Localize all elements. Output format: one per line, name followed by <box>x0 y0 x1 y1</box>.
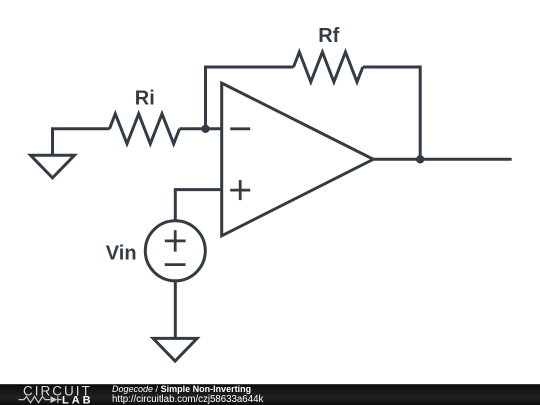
svg-text:Rf: Rf <box>318 25 339 47</box>
svg-text:http://circuitlab.com/czj58633: http://circuitlab.com/czj58633a644k <box>112 394 263 405</box>
schematic style <box>31 52 512 361</box>
svg-text:Dogecode / Simple Non-Invertin: Dogecode / Simple Non-Inverting <box>112 384 251 394</box>
node: output junction <box>416 155 424 163</box>
node: inverting input junction <box>201 125 209 133</box>
wire: Ri to inverting input <box>180 127 222 130</box>
op-amp U1 <box>222 83 374 236</box>
wire: Vin to bottom ground <box>174 281 177 339</box>
CircuitLab logo <box>19 383 94 405</box>
ground (bottom) <box>153 338 197 361</box>
wire: Rf to output vertical <box>363 67 420 159</box>
op-amp non-inverting input symbol (+) <box>230 180 250 200</box>
resistor Rf <box>294 52 363 82</box>
wire: feedback vertical (node to top) <box>206 67 294 129</box>
svg-text:LAB: LAB <box>62 395 94 405</box>
Vin plus symbol <box>165 239 186 242</box>
op-amp inverting input symbol (-) <box>230 127 250 130</box>
voltage source Vin <box>145 221 205 281</box>
ground (left) <box>31 155 75 178</box>
wire: non-inverting input to Vin <box>175 190 221 221</box>
wire: output <box>373 158 511 161</box>
resistor Ri <box>110 114 180 144</box>
svg-text:Vin: Vin <box>106 243 137 265</box>
wire: left ground to resistor Ri <box>53 129 110 155</box>
svg-text:Ri: Ri <box>135 87 155 109</box>
Vin minus symbol <box>165 263 186 266</box>
